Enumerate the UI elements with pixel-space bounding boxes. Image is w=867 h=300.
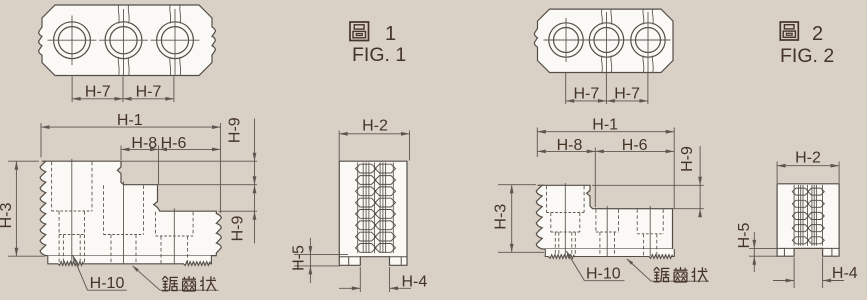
break lines (wavy) fig2 top view — [600, 9, 603, 24]
svg-text:H-6: H-6 — [622, 137, 648, 154]
base strip with serrated bottom (fig1) — [48, 256, 212, 266]
hidden (dashed) mounting hole 2, fig2 front — [595, 209, 597, 232]
svg-text:H-9: H-9 — [227, 117, 244, 143]
centerline cross — [48, 39, 97, 41]
hidden (dashed) mounting hole 2, fig1 front — [103, 185, 105, 234]
jaw 1 front view outline (stepped block) — [40, 161, 221, 255]
dimension H-7 chain, fig1 top view — [71, 77, 73, 103]
base strip with serrated bottom (fig2) — [545, 249, 674, 258]
dimension H-3 (fig2) — [498, 184, 536, 186]
svg-text:H-3: H-3 — [0, 203, 15, 229]
centerline cross — [544, 39, 589, 41]
dimension H-3 (fig1) — [8, 160, 39, 162]
svg-text:H-7: H-7 — [574, 86, 600, 103]
dimension H-5 (fig1) — [294, 254, 348, 256]
leader + label 鋸齒狀 (serrated), fig1 — [133, 266, 161, 290]
jaw 2 front view outline (L-shaped block) — [536, 185, 672, 249]
hole 1 (top view, fig1) — [54, 22, 91, 59]
svg-text:H-4: H-4 — [402, 274, 428, 291]
dimensions H-8 / H-6 (fig2) — [594, 148, 596, 208]
centerline cross — [99, 39, 148, 41]
centerline cross — [151, 39, 200, 41]
svg-text:H-5: H-5 — [736, 223, 753, 249]
serration band verticals — [357, 162, 359, 253]
leader + label H-10 (fig1) — [73, 255, 88, 290]
jaw 1 top view outline — [39, 5, 216, 76]
hidden (dashed) mounting hole 1, fig1 front — [51, 162, 53, 211]
centerline cross — [584, 39, 629, 41]
dimension H-5 (fig2) — [749, 247, 784, 249]
step reference lines to H-9 (fig1) — [121, 160, 257, 162]
leader + label H-10 (fig2) — [566, 251, 584, 281]
dimension H-7 chain, fig2 top view — [565, 73, 567, 104]
hole 1 (top view, fig2) — [549, 23, 583, 57]
hidden (dashed) mounting hole 1, fig2 front — [546, 186, 548, 213]
svg-text:H-7: H-7 — [85, 83, 111, 100]
hidden (dashed) mounting hole 3, fig1 front — [155, 212, 157, 236]
title 圖 2 — [780, 22, 798, 40]
base strip line + guide feet (fig1 end) — [339, 256, 360, 258]
svg-text:H-3: H-3 — [492, 204, 509, 230]
svg-text:2: 2 — [812, 23, 823, 45]
dimension H-1 (fig1) — [40, 123, 42, 158]
hidden (dashed) mounting hole 3, fig2 front — [636, 209, 638, 234]
svg-text:H-8: H-8 — [557, 137, 583, 154]
svg-text:FIG. 2: FIG. 2 — [780, 45, 834, 67]
dimension H-4 (fig1) — [359, 267, 361, 292]
dimension H-2 (fig2) — [776, 162, 778, 184]
svg-text:H-7: H-7 — [136, 83, 162, 100]
leader + label 鋸齒狀 (serrated), fig2 — [627, 259, 651, 281]
svg-text:H-2: H-2 — [795, 150, 821, 167]
serration band verticals — [793, 185, 795, 246]
svg-text:1: 1 — [385, 23, 396, 45]
dimension H-1 (fig2) — [536, 128, 538, 158]
svg-text:H-2: H-2 — [362, 117, 388, 134]
svg-text:H-6: H-6 — [161, 135, 187, 152]
serration teeth rows (hexagons) — [356, 164, 377, 173]
dimensions H-8 / H-6 (fig1) — [120, 146, 122, 161]
serration teeth rows (hexagons) — [792, 188, 808, 195]
break lines (wavy) fig1 top view — [117, 5, 120, 24]
svg-text:H-10: H-10 — [90, 275, 125, 292]
svg-text:FIG. 1: FIG. 1 — [352, 44, 406, 66]
svg-text:H-10: H-10 — [586, 265, 621, 282]
svg-text:H-9: H-9 — [679, 146, 696, 172]
dimension H-4 (fig2) — [793, 258, 795, 289]
jaw 2 top view outline — [534, 9, 673, 72]
dimension H-9 (fig2) — [699, 146, 701, 216]
svg-text:H-7: H-7 — [614, 86, 640, 103]
dimension H-9 upper (fig1) — [254, 119, 256, 244]
svg-text:H-8: H-8 — [131, 135, 157, 152]
hole 2 (top view, fig2) — [589, 23, 623, 57]
svg-text:H-4: H-4 — [832, 265, 858, 282]
jaw 2 end (side) view outline — [777, 184, 839, 256]
dimension H-9 lower (fig1) — [253, 176, 257, 185]
svg-text:H-1: H-1 — [592, 116, 618, 133]
dimension H-2 (fig1) — [338, 131, 340, 161]
svg-text:H-5: H-5 — [290, 245, 307, 271]
centerline cross — [626, 39, 671, 41]
hole 2 (top view, fig1) — [105, 22, 142, 59]
base strip line + guide feet (fig2 end) — [777, 247, 794, 249]
svg-text:H-1: H-1 — [117, 112, 143, 129]
svg-text:H-9: H-9 — [230, 216, 247, 242]
step reference lines to H-9 (fig2) — [592, 184, 704, 186]
title 圖 1 — [350, 22, 369, 41]
jaw 1 end (side) view outline — [339, 161, 407, 265]
hole 3 (top view, fig1) — [157, 22, 194, 59]
hole 3 (top view, fig2) — [631, 23, 665, 57]
